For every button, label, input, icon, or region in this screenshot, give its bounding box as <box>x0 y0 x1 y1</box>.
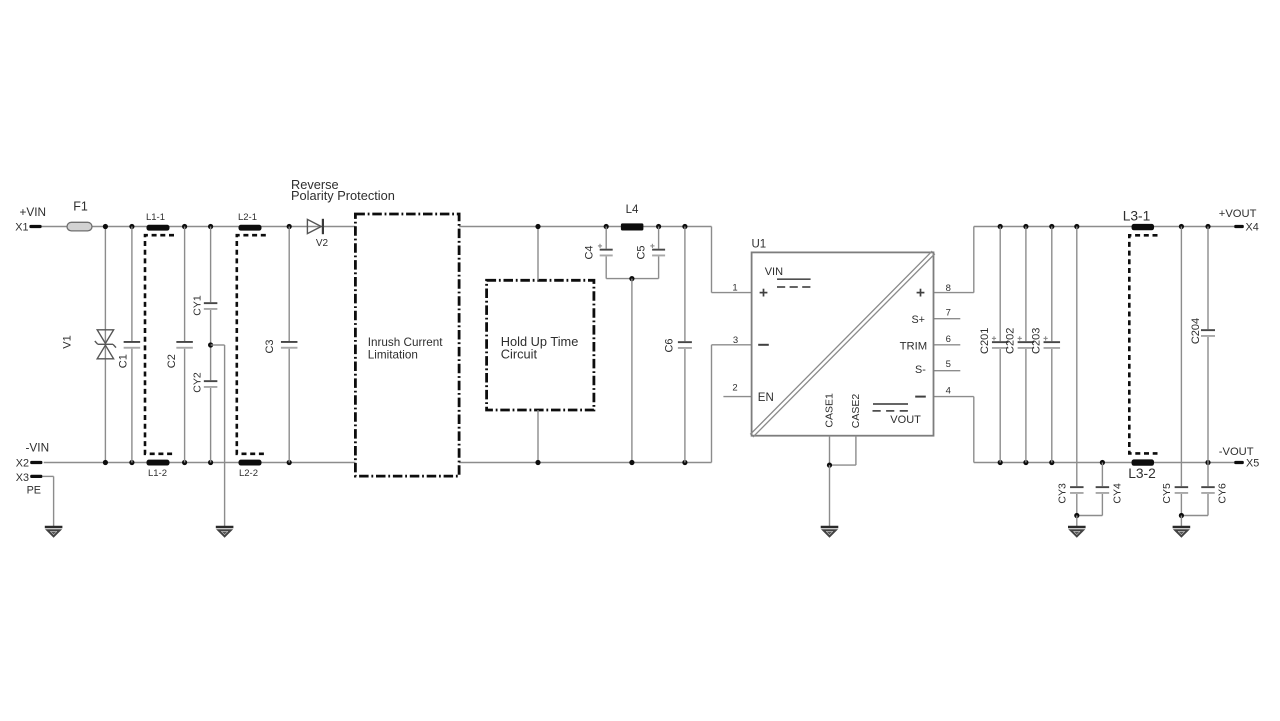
svg-text:C4: C4 <box>584 245 596 259</box>
svg-text:C6: C6 <box>664 338 676 352</box>
svg-text:Limitation: Limitation <box>368 348 418 361</box>
svg-text:V1: V1 <box>62 335 74 348</box>
svg-text:C203: C203 <box>1031 328 1043 354</box>
svg-text:6: 6 <box>946 334 951 345</box>
svg-text:L1-2: L1-2 <box>148 468 167 479</box>
svg-text:4: 4 <box>946 385 951 396</box>
svg-text:CY3: CY3 <box>1056 483 1068 504</box>
svg-text:C3: C3 <box>264 339 276 353</box>
svg-text:CASE2: CASE2 <box>850 394 862 429</box>
svg-text:F1: F1 <box>73 200 88 214</box>
svg-text:Inrush Current: Inrush Current <box>368 336 443 349</box>
svg-text:L4: L4 <box>626 204 639 216</box>
svg-text:5: 5 <box>946 359 951 370</box>
svg-text:3: 3 <box>733 335 738 346</box>
svg-text:CY1: CY1 <box>192 295 204 316</box>
svg-text:VOUT: VOUT <box>890 414 921 426</box>
svg-text:S-: S- <box>915 364 926 376</box>
svg-text:7: 7 <box>946 308 951 319</box>
svg-text:X5: X5 <box>1246 458 1259 470</box>
svg-text:VIN: VIN <box>765 266 783 278</box>
svg-text:+VOUT: +VOUT <box>1219 208 1257 220</box>
svg-text:2: 2 <box>732 383 737 394</box>
svg-text:X1: X1 <box>15 221 28 233</box>
svg-text:1: 1 <box>732 283 737 294</box>
svg-text:Polarity Protection: Polarity Protection <box>291 188 395 203</box>
svg-text:X4: X4 <box>1246 221 1259 233</box>
svg-text:PE: PE <box>27 485 41 497</box>
svg-text:C1: C1 <box>118 354 130 368</box>
svg-text:CY4: CY4 <box>1112 483 1124 504</box>
svg-text:C204: C204 <box>1190 318 1202 344</box>
svg-text:L3-2: L3-2 <box>1128 466 1156 481</box>
svg-text:CASE1: CASE1 <box>823 393 835 428</box>
svg-text:8: 8 <box>946 283 951 294</box>
svg-text:-VIN: -VIN <box>26 440 50 454</box>
svg-text:X3: X3 <box>16 472 29 484</box>
svg-text:CY6: CY6 <box>1217 483 1229 504</box>
svg-text:U1: U1 <box>752 239 767 251</box>
svg-text:C202: C202 <box>1005 328 1017 354</box>
svg-text:TRIM: TRIM <box>900 340 928 352</box>
svg-text:L2-2: L2-2 <box>239 468 258 479</box>
svg-text:C2: C2 <box>166 354 178 368</box>
svg-text:C201: C201 <box>979 328 991 354</box>
svg-text:C5: C5 <box>636 245 648 259</box>
svg-text:+VIN: +VIN <box>20 205 47 219</box>
svg-text:Circuit: Circuit <box>501 347 538 362</box>
svg-text:L3-1: L3-1 <box>1123 209 1151 224</box>
svg-text:S+: S+ <box>911 314 925 326</box>
svg-text:EN: EN <box>758 392 774 404</box>
svg-text:L2-1: L2-1 <box>238 212 257 223</box>
svg-text:V2: V2 <box>316 238 329 249</box>
svg-text:CY5: CY5 <box>1161 483 1173 504</box>
svg-text:X2: X2 <box>16 457 29 469</box>
svg-text:L1-1: L1-1 <box>146 212 165 223</box>
svg-text:CY2: CY2 <box>192 372 204 393</box>
svg-text:-VOUT: -VOUT <box>1219 446 1254 458</box>
